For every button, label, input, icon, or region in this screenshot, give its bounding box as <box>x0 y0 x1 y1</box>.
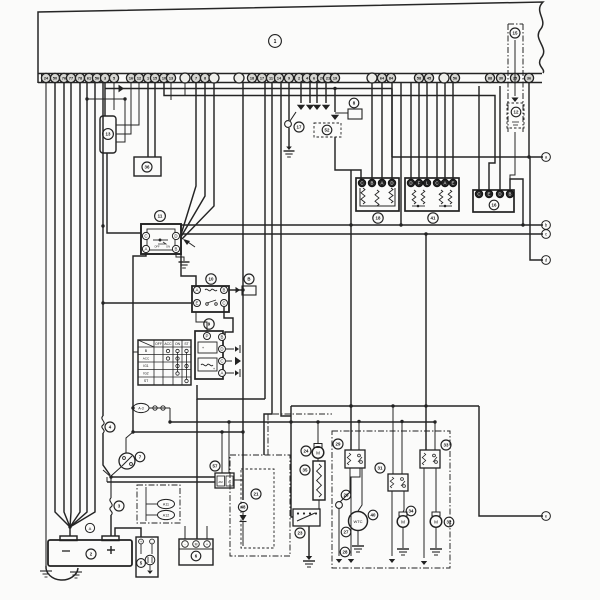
wire with down arrow from 15 to 12 <box>514 40 516 96</box>
svg-text:61: 61 <box>87 77 91 81</box>
bracket under ignition switch assembly <box>197 385 265 399</box>
annotation arrow into relay 11 D <box>185 240 195 247</box>
fuse 41 coil 1 <box>412 190 416 204</box>
fuse 41 coil 2 <box>421 190 425 204</box>
fuse block 16 body <box>473 190 514 212</box>
connector B box <box>242 286 256 295</box>
ignition relay 11 label <box>155 211 166 222</box>
wire terminal to junction under fuse block 41 <box>400 83 402 225</box>
svg-text:2: 2 <box>298 77 300 81</box>
svg-text:C: C <box>220 359 223 364</box>
junction box 57 label <box>210 461 220 471</box>
svg-text:15: 15 <box>513 31 518 36</box>
svg-text:31: 31 <box>378 466 383 471</box>
relay 10 coil symbol <box>205 289 217 291</box>
svg-text:D: D <box>390 181 393 186</box>
relay 10 terminal B <box>221 287 228 294</box>
coil 9 terminal C <box>219 358 226 365</box>
wire bracket to cluster terminal <box>264 83 266 399</box>
wire terminal 3 down through fusible link 4 to junction <box>102 83 104 416</box>
svg-text:52: 52 <box>325 128 330 133</box>
relay 31 body <box>388 474 408 491</box>
battery 2 body <box>48 540 132 566</box>
connector strip terminal circles <box>41 73 50 82</box>
fusible link 4 squiggle <box>102 416 104 433</box>
horn switch 23 label <box>295 528 305 538</box>
svg-text:ACC: ACC <box>143 357 150 361</box>
fuse block 41 label <box>428 213 438 223</box>
svg-text:34: 34 <box>409 509 414 514</box>
coil 9 primary winding box <box>198 342 217 353</box>
wires fuse 41 terminals to strip <box>410 83 412 179</box>
svg-text:45: 45 <box>427 77 431 81</box>
battery label 2 <box>86 549 96 559</box>
wire fuse 18 B to strip <box>371 83 373 179</box>
wire relay 10 E to coil 9 P <box>196 312 207 331</box>
svg-text:16: 16 <box>129 77 133 81</box>
svg-text:ST: ST <box>184 342 188 346</box>
resistor 35 body <box>313 461 325 500</box>
svg-text:13: 13 <box>169 77 173 81</box>
svg-text:+: + <box>140 540 142 544</box>
svg-text:M: M <box>316 451 320 456</box>
wire bracket down to fuse box 6 <box>196 399 198 539</box>
wire from fuse 13 bottom to ignition relay C <box>107 153 141 233</box>
svg-text:76: 76 <box>62 77 66 81</box>
fuse block 41 terminal E <box>449 179 457 187</box>
svg-text:B: B <box>509 192 512 197</box>
wire bus406 to relay 31 <box>392 406 394 474</box>
wire relay 10 B to connector B with arrow <box>229 289 242 291</box>
svg-text:C: C <box>360 181 363 186</box>
harness dash-dot tail <box>268 414 332 455</box>
svg-text:D: D <box>174 234 177 239</box>
ground under switch 17 <box>286 147 292 151</box>
svg-text:D: D <box>409 181 412 186</box>
svg-text:A: A <box>145 247 148 252</box>
wire relay 29 second pin down <box>351 468 360 556</box>
svg-text:C: C <box>477 192 480 197</box>
relay 31 label <box>375 463 385 473</box>
fuse block 18 terminal D <box>388 179 396 187</box>
diode unit label 21 <box>251 489 261 499</box>
wire relay 10 C to ignition coil 9 B <box>224 307 233 335</box>
svg-text:M: M <box>195 543 198 547</box>
relay 11 terminal B <box>172 245 179 252</box>
battery positive post <box>102 536 119 541</box>
svg-text:A11: A11 <box>163 503 169 507</box>
wire cluster terminal to inner corner <box>264 83 272 455</box>
svg-text:21: 21 <box>254 492 259 497</box>
wire distributor to battery positive junction <box>111 467 121 476</box>
svg-text:E: E <box>452 181 455 186</box>
fusible link box 5 <box>136 537 158 577</box>
resistor 35 label <box>300 465 310 475</box>
ignition switch contact table <box>138 340 191 385</box>
link 5 ground arrow <box>149 565 151 570</box>
starter relay 10 label <box>206 274 216 284</box>
fuse block 16 terminal E <box>485 190 493 198</box>
svg-text:56: 56 <box>95 77 99 81</box>
svg-text:E: E <box>488 192 491 197</box>
connector arrow down left <box>336 559 342 563</box>
relay 11 terminal A <box>142 245 149 252</box>
svg-text:33: 33 <box>444 443 449 448</box>
ground under washer motor <box>430 548 442 550</box>
wire relay 11 B to ground <box>176 253 184 261</box>
wire wiper motor to ground <box>402 527 404 548</box>
battery positive sign <box>107 549 115 551</box>
accessory bus y422 <box>170 421 436 423</box>
switch table contacts <box>166 349 169 352</box>
svg-text:P: P <box>206 334 209 339</box>
fusible link 3 squiggle <box>110 498 112 515</box>
dash-dot harness box around terminals 15/12 at top right <box>507 24 509 132</box>
wire switch 26 down <box>338 509 340 557</box>
inline connector label A near battery fan <box>85 523 94 532</box>
svg-text:5: 5 <box>113 77 115 81</box>
svg-text:WTC: WTC <box>353 519 362 524</box>
svg-text:ON: ON <box>175 342 181 346</box>
horn switch 23 body <box>293 509 320 526</box>
relay 10 terminal A <box>194 287 201 294</box>
fuse block 41 body <box>405 178 459 211</box>
wire terminal stub to ignition relay fan <box>182 83 214 239</box>
relay 11 terminal C <box>142 232 149 239</box>
svg-text:A: A <box>221 371 224 376</box>
svg-text:A: A <box>196 288 199 293</box>
svg-text:+: + <box>206 543 208 547</box>
wire relay 29 to fan switch 26 <box>340 468 350 502</box>
svg-text:78: 78 <box>78 77 82 81</box>
ground under relay 11 <box>179 261 190 263</box>
svg-text:12: 12 <box>137 77 141 81</box>
svg-text:57: 57 <box>213 464 218 469</box>
wire box 57 to diode wire <box>234 479 243 481</box>
svg-text:D: D <box>498 192 501 197</box>
jumper bus y99 between wires <box>87 98 125 100</box>
svg-text:1: 1 <box>274 39 277 45</box>
wire from switch 17 to ground <box>288 128 290 148</box>
fuse block 18 label <box>373 213 383 223</box>
signal arrow at coil 9 D <box>226 348 234 350</box>
signal arrow at coil 9 C <box>226 360 232 362</box>
svg-text:A: A <box>444 181 447 186</box>
battery negative post <box>60 536 77 541</box>
fuse box 13 <box>100 116 116 153</box>
ground under switch 23 <box>306 556 312 560</box>
fuse block 41 terminal C <box>433 179 441 187</box>
wire resistor to horn switch 23 <box>318 500 320 509</box>
svg-text:17: 17 <box>297 125 302 130</box>
contact e <box>542 512 551 521</box>
feed wire to fuse box 57 (IG) <box>107 481 215 483</box>
wire terminal 13 stub <box>170 83 172 100</box>
svg-text:24: 24 <box>304 449 309 454</box>
junction dot on wire 3 at starter relay feed <box>101 224 104 227</box>
svg-text:IG1: IG1 <box>143 364 148 368</box>
wire A3 corner to accessory bus <box>169 408 171 422</box>
wire terminal 15 into gauge box 36 <box>154 83 156 157</box>
wire motor to resistor <box>317 458 319 461</box>
wire terminal 12 step into fuse 13 (step 1) <box>116 83 139 125</box>
svg-text:B: B <box>175 247 178 252</box>
noise filter 52 dashed box <box>314 123 341 137</box>
svg-text:c: c <box>545 232 547 237</box>
main feed bus y406 <box>291 405 479 407</box>
fuse block 16 terminal C <box>475 190 483 198</box>
svg-text:IG: IG <box>228 480 231 484</box>
wire from connector 12 down to fuse block 16 side <box>510 132 515 190</box>
svg-text:11: 11 <box>158 214 163 219</box>
svg-text:8: 8 <box>204 77 206 81</box>
svg-text:30: 30 <box>499 77 503 81</box>
svg-text:19: 19 <box>333 77 337 81</box>
fuse block 41 terminal D <box>407 179 415 187</box>
svg-text:28: 28 <box>343 550 348 555</box>
svg-text:A12: A12 <box>163 514 169 518</box>
wire bundle terminals 50/76/77/78/61/56 to battery negative post <box>55 83 70 527</box>
wire terminal 5 into fuse box 13 <box>104 83 106 116</box>
fuse 18 element 2 <box>375 190 379 206</box>
fuse 18 element 1 <box>361 188 365 204</box>
connector arrow down right <box>348 559 354 563</box>
fuse 41 coil 4 <box>448 190 452 204</box>
fuse box 6 side stubs <box>184 526 186 539</box>
svg-text:21: 21 <box>326 77 330 81</box>
battery negative post lead <box>69 527 71 536</box>
wire diode to bottom <box>242 512 244 515</box>
svg-text:41: 41 <box>431 216 436 221</box>
distributor 7 <box>119 453 135 469</box>
ignition bus y432 <box>133 431 243 433</box>
contact b <box>542 221 551 230</box>
instrument cluster unit 1 (large box with torn right edge) <box>38 2 544 83</box>
svg-text:16: 16 <box>492 203 497 208</box>
wire fuse 18 A to strip <box>381 83 383 179</box>
wire relay 31 down to connector arrow <box>391 491 393 556</box>
wire bus406 right drop to contact e <box>479 406 543 516</box>
svg-text:E: E <box>196 301 199 306</box>
wire terminal stub at 185 <box>184 83 186 96</box>
wire terminal 16 step into fuse 13 (step 2) <box>116 83 131 134</box>
fuse 41 bottom links <box>412 205 425 207</box>
wire bus to charge relay feeds <box>358 422 360 451</box>
svg-text:A: A <box>89 526 92 531</box>
ignition switch feed stub <box>133 351 138 353</box>
svg-text:7: 7 <box>195 77 197 81</box>
fuse 8 box <box>348 109 362 119</box>
connector A11 <box>158 499 175 508</box>
ignition coil 9 body <box>195 331 223 379</box>
fuse block 18 body <box>356 178 399 211</box>
wire relay 33 down to connector arrow <box>423 468 425 558</box>
svg-text:17: 17 <box>260 77 264 81</box>
wire cluster terminal to diode unit <box>242 83 244 500</box>
feed line B to fuse block 16 <box>164 83 495 190</box>
svg-text:23: 23 <box>298 531 303 536</box>
contact d <box>542 256 551 265</box>
wire from terminal 24 down left edge to battery ground area <box>45 83 47 566</box>
wire motor 24 to accessory bus <box>317 422 319 444</box>
harness dash-dot box around connectors A11/A12 <box>137 485 180 523</box>
relay 33 label <box>441 440 451 450</box>
thermo switch WTC <box>349 512 368 531</box>
svg-text:11: 11 <box>269 77 273 81</box>
relay 11 internal contact <box>153 239 168 241</box>
svg-text:26: 26 <box>344 493 349 498</box>
ground at strap right <box>70 571 82 573</box>
svg-text:77: 77 <box>69 77 73 81</box>
coil 9 terminal B <box>219 334 226 341</box>
wire terminal 1 into gauge box 36 <box>147 83 149 157</box>
feed line A drop to horn lead a <box>391 89 393 158</box>
connector 48 on diode wire <box>238 502 247 511</box>
wire washer motor to ground <box>435 527 437 548</box>
terminal label 15 <box>510 28 520 38</box>
svg-text:10: 10 <box>209 277 214 282</box>
svg-text:88: 88 <box>488 77 492 81</box>
svg-text:B: B <box>247 277 250 282</box>
fuse box 6 label <box>191 551 201 561</box>
svg-text:27: 27 <box>344 530 349 535</box>
svg-text:1: 1 <box>147 77 149 81</box>
svg-text:36: 36 <box>527 77 531 81</box>
svg-text:M: M <box>434 520 438 525</box>
svg-text:6: 6 <box>313 77 315 81</box>
fan wire c bus from ignition relay D to contact c <box>181 233 543 235</box>
svg-text:M: M <box>401 520 405 525</box>
wire fuse 16 B to bus b <box>510 179 523 225</box>
diode symbol <box>240 515 247 521</box>
fuse block 41 terminal F <box>415 179 423 187</box>
svg-text:36: 36 <box>145 165 150 170</box>
svg-text:32: 32 <box>447 520 452 525</box>
svg-text:58: 58 <box>417 77 421 81</box>
wire terminal 19 to noise filter 52 <box>334 89 336 113</box>
svg-text:29: 29 <box>336 442 341 447</box>
cluster reference label 1 <box>269 35 282 48</box>
fuse block 18 terminal C <box>358 179 366 187</box>
svg-text:D: D <box>220 347 223 352</box>
gauge box 36 <box>134 157 161 176</box>
inline connector A3 <box>133 403 149 412</box>
relay 11 terminal D <box>172 232 179 239</box>
wires to A11 A12 <box>145 487 147 521</box>
fan wire b bus from ignition relay D to contact b <box>181 224 543 226</box>
fuse 41 coil 3 <box>439 190 443 204</box>
svg-text:OFF: OFF <box>154 245 160 249</box>
fuse block 18 terminal B <box>368 179 376 187</box>
fuse block 41 terminal L <box>423 179 431 187</box>
svg-text:C: C <box>222 301 225 306</box>
wire cluster terminal to bus422 via corner <box>281 83 291 416</box>
ground under WTC <box>352 545 364 547</box>
relay 10 terminal C <box>221 300 228 307</box>
harness dash-dot box bottom middle <box>332 431 450 568</box>
door switch 17 <box>285 121 292 128</box>
wire relay 29 to thermo switch WTC <box>358 468 362 511</box>
fuse block 41 terminal A <box>441 179 449 187</box>
svg-text:12: 12 <box>514 110 519 115</box>
dashed connector box 12 <box>507 103 524 128</box>
contact c <box>542 230 551 239</box>
wire relay 10 E from fuse wire 3 <box>103 302 192 304</box>
fuse block 16 terminal B <box>506 190 514 198</box>
harness dash-dot box around diode unit 21 <box>230 455 290 556</box>
horn motor M <box>314 444 322 448</box>
relay 10 terminal E <box>194 300 201 307</box>
fan switch 26 <box>336 502 343 509</box>
fuse block 16 terminal D <box>496 190 504 198</box>
coil 9 secondary winding box <box>198 358 217 371</box>
branch to fuse 8 <box>335 112 348 114</box>
wire from ignition bus to distributor <box>126 432 133 453</box>
svg-text:ON: ON <box>166 245 170 249</box>
svg-text:ST: ST <box>144 379 148 383</box>
contact a <box>542 153 551 162</box>
svg-text:56: 56 <box>453 77 457 81</box>
connector B label <box>244 274 254 284</box>
svg-text:9: 9 <box>288 77 290 81</box>
connector strip bus bars under cluster <box>38 73 542 75</box>
svg-text:B: B <box>371 181 374 186</box>
svg-text:A-3: A-3 <box>138 407 144 411</box>
relay 29 label <box>333 439 343 449</box>
wire relay 11 A down to ignition switch and fuse bus <box>133 253 146 432</box>
svg-text:C: C <box>144 234 147 239</box>
dashed inner box of diode unit <box>241 469 274 548</box>
wire terminal 9 to door switch 17 <box>288 83 290 120</box>
svg-text:48: 48 <box>241 505 246 510</box>
svg-text:13: 13 <box>106 132 111 137</box>
wire link 3 to battery positive post <box>110 515 112 536</box>
svg-text:50: 50 <box>53 77 57 81</box>
wire bus406 left drop to horn switch 23 <box>291 406 293 517</box>
svg-text:B: B <box>221 335 224 340</box>
svg-text:F: F <box>418 181 421 186</box>
link 5 element <box>145 555 155 565</box>
wire from bus into fuse 13 right side (step 3) <box>116 99 125 142</box>
ground at strap left <box>40 570 52 572</box>
fuse block 16 label <box>489 200 499 210</box>
connector A12 <box>158 510 175 519</box>
coil 9 terminal A <box>219 370 226 377</box>
wiper motor M 34 <box>399 512 407 516</box>
feed wire to fuse box 57 (AM) <box>111 476 215 478</box>
wire relay 33 to washer motor <box>435 468 437 512</box>
svg-text:OFF: OFF <box>155 342 162 346</box>
wire fuse 16 D to strip <box>499 86 501 190</box>
illumination feed arrows from terminals 2/4/6/20 <box>300 83 302 103</box>
signal arrow at coil 9 A <box>226 372 234 374</box>
wire branch down to relay 29 feed <box>350 170 352 450</box>
junction at battery negative fan <box>68 525 71 528</box>
feed line A with arrow to fuse 8/52 area <box>105 88 392 90</box>
relay 33 body <box>420 450 440 468</box>
wire junction down through fusible link 3 <box>110 477 112 498</box>
svg-text:B: B <box>223 288 226 293</box>
junction dot at wire 19 tap <box>333 87 336 90</box>
wire c-bus to wiper relay <box>425 234 427 450</box>
battery positive junction <box>109 475 112 478</box>
svg-text:40: 40 <box>371 513 376 518</box>
svg-text:A: A <box>381 181 384 186</box>
svg-text:IG2: IG2 <box>143 372 148 376</box>
wire terminal 8 to ignition relay fan <box>182 83 206 236</box>
wire switch 23 to ground <box>308 526 310 556</box>
wire battery positive to link box 5 <box>115 528 141 537</box>
